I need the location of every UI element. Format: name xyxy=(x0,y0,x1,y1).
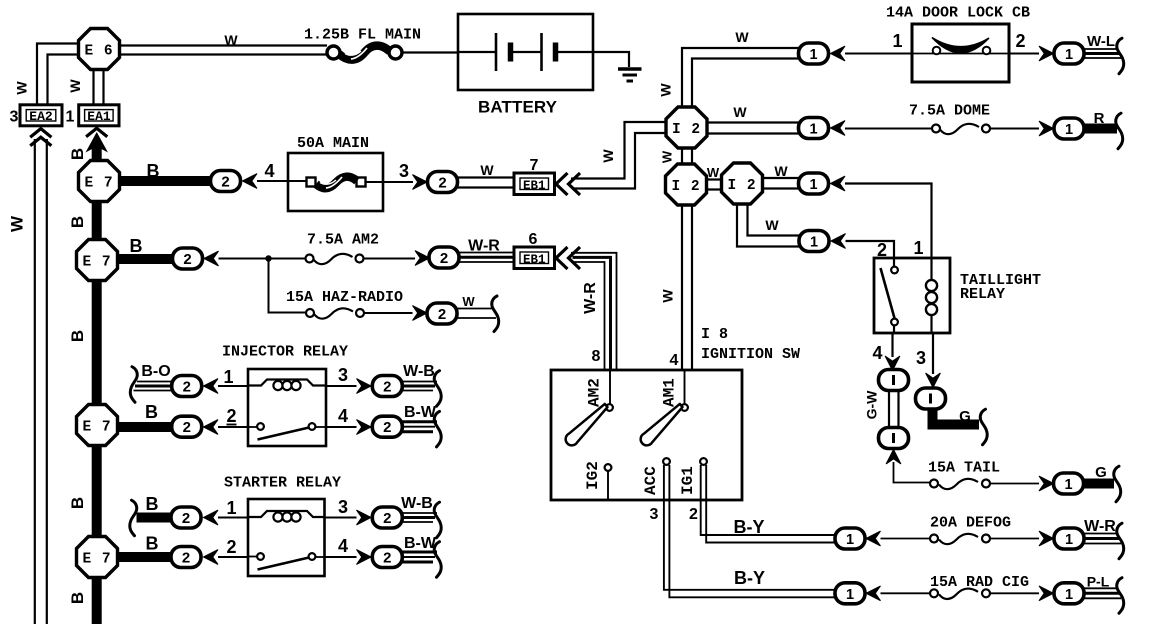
svg-text:W: W xyxy=(774,163,788,179)
hook continuation W-R DEFOG xyxy=(1117,523,1124,559)
junction octagon E 6 xyxy=(79,29,120,70)
wire R thick bar xyxy=(1084,124,1117,134)
wire B-Y double from ACC down then right to rad cig oval xyxy=(664,465,837,597)
wire injector pin2 to box xyxy=(218,426,248,428)
svg-text:ACC: ACC xyxy=(642,466,660,495)
connector oval 2 starter pin2 xyxy=(171,547,201,568)
ground symbol at battery xyxy=(618,69,642,81)
arrow into right oval dome row xyxy=(1039,121,1054,136)
wire dome oval to fuse xyxy=(845,128,932,130)
svg-text:I 2: I 2 xyxy=(672,122,701,138)
svg-text:2: 2 xyxy=(383,551,392,568)
svg-text:2: 2 xyxy=(226,537,236,557)
arrow into door lock oval xyxy=(831,46,846,61)
svg-text:4: 4 xyxy=(670,352,679,369)
arrow into starter pin1 oval xyxy=(204,510,219,525)
svg-text:W: W xyxy=(462,294,475,309)
svg-text:4: 4 xyxy=(338,536,348,556)
wire W double from I2 C right to taillight row oval xyxy=(762,178,799,189)
svg-text:B: B xyxy=(147,161,160,181)
fuse 20A DEFOG xyxy=(930,534,990,544)
svg-text:W: W xyxy=(735,29,749,45)
svg-text:1: 1 xyxy=(223,367,233,387)
svg-text:2: 2 xyxy=(383,380,392,397)
wire battery to ground xyxy=(593,52,629,67)
svg-text:IG1: IG1 xyxy=(679,466,697,495)
svg-text:B-Y: B-Y xyxy=(734,568,765,588)
arrow double chevron up into EA2 xyxy=(30,129,51,146)
wire starter pin1 to oval xyxy=(218,517,248,519)
svg-text:AM2: AM2 xyxy=(586,378,604,407)
battery box xyxy=(458,14,593,90)
svg-text:1: 1 xyxy=(892,31,902,51)
wire starter pin3 to oval xyxy=(325,517,357,519)
svg-text:W-R: W-R xyxy=(1084,518,1116,535)
arrow double chevron at EB1 no7 xyxy=(556,173,580,195)
arrow double chevron at EB1 no6 xyxy=(556,247,580,269)
junction octagon I 2 B xyxy=(666,164,707,205)
svg-text:2: 2 xyxy=(438,176,447,193)
connector oval 1 door lock row xyxy=(799,43,829,64)
svg-text:B: B xyxy=(68,216,87,228)
wire W double from I2 B bottom down to ignition AM1 xyxy=(682,204,692,370)
connector oval 2 starter pin1 xyxy=(171,507,201,528)
svg-text:2: 2 xyxy=(226,406,236,426)
svg-text:B-W: B-W xyxy=(404,404,437,421)
hook continuation R xyxy=(1116,113,1123,149)
connector oval 2 injector pin3 xyxy=(372,376,402,397)
junction octagon I 2 A xyxy=(666,107,707,148)
wire RAD CIG fuse to right oval xyxy=(990,592,1039,594)
circuit breaker box 14A DOOR LOCK CB xyxy=(912,24,1009,82)
battery cells xyxy=(458,33,593,71)
injector relay box xyxy=(248,369,326,446)
svg-text:E 7: E 7 xyxy=(82,552,111,568)
hook continuation B-W injector xyxy=(434,411,441,447)
svg-text:1: 1 xyxy=(846,532,854,548)
wire B-W injector xyxy=(402,422,437,432)
wire CB to right oval xyxy=(1009,53,1039,55)
svg-text:B-W: B-W xyxy=(404,535,437,552)
svg-text:2: 2 xyxy=(183,252,192,269)
arrow into oval AM2 row xyxy=(204,251,219,266)
wire branch down to 15A HAZ-RADIO xyxy=(269,259,307,313)
terminal AM2 xyxy=(606,370,613,411)
svg-text:2: 2 xyxy=(181,551,190,568)
svg-text:EB1: EB1 xyxy=(523,253,546,267)
svg-text:I 2: I 2 xyxy=(671,179,700,195)
wire injector pin1 to oval xyxy=(218,385,248,387)
svg-text:7.5A AM2: 7.5A AM2 xyxy=(307,232,379,249)
ground octagon E 7 no4 xyxy=(77,537,118,578)
svg-text:R: R xyxy=(1094,110,1105,127)
arrow into defog left oval xyxy=(866,531,881,546)
connector oval 1 rad cig left xyxy=(835,583,865,604)
arrow into injector pin3 oval xyxy=(357,379,372,394)
svg-text:1: 1 xyxy=(226,498,236,518)
svg-text:B: B xyxy=(130,236,143,256)
svg-text:2: 2 xyxy=(437,307,446,324)
connector oval 1 pin3 xyxy=(916,388,946,409)
svg-text:4: 4 xyxy=(872,343,882,363)
connector oval 2 injector pin4 xyxy=(372,416,402,437)
ground octagon E 7 no3 xyxy=(77,405,118,446)
wire 50A MAIN to right connector xyxy=(365,181,413,183)
connector oval 1 defog left xyxy=(835,528,865,549)
wire W-B starter xyxy=(402,513,437,522)
starter relay coil xyxy=(248,511,325,522)
wire from FL MAIN to battery xyxy=(402,51,458,53)
wire W double-line from E6 left, down to EA2 xyxy=(37,44,79,107)
svg-text:1: 1 xyxy=(1065,122,1073,138)
arrow into row4 oval xyxy=(831,234,846,249)
wire to 20A DEFOG fuse xyxy=(881,538,933,540)
svg-text:1: 1 xyxy=(809,122,817,138)
svg-text:W: W xyxy=(765,217,779,233)
taillight relay box xyxy=(874,258,950,333)
arrow into injector pin2 oval xyxy=(204,420,219,435)
svg-text:2: 2 xyxy=(439,251,448,268)
starter relay switch xyxy=(248,553,325,569)
arrow into oval right AM2 row xyxy=(415,251,430,266)
svg-text:EA2: EA2 xyxy=(29,109,53,124)
svg-text:W-B: W-B xyxy=(403,363,435,380)
wire W double between I2 B and I2 C xyxy=(705,180,723,190)
svg-text:2: 2 xyxy=(689,506,698,523)
wire B thick E7 no4 to oval xyxy=(117,552,171,562)
svg-text:4: 4 xyxy=(338,406,348,426)
svg-text:7.5A DOME: 7.5A DOME xyxy=(909,103,990,120)
hook continuation P-L xyxy=(1117,578,1124,614)
connector oval 2 left of 50A MAIN xyxy=(211,171,241,192)
svg-text:B: B xyxy=(146,494,159,514)
svg-text:B-Y: B-Y xyxy=(734,517,765,537)
svg-text:I 8: I 8 xyxy=(701,326,728,343)
svg-text:INJECTOR RELAY: INJECTOR RELAY xyxy=(222,344,348,361)
wire from arrow to 7.5A AM2 fuse with junction xyxy=(219,258,307,260)
svg-text:W: W xyxy=(8,215,27,232)
svg-text:3: 3 xyxy=(338,365,348,385)
svg-text:W-L: W-L xyxy=(1087,33,1115,50)
svg-text:3: 3 xyxy=(650,506,659,523)
wire to door lock CB xyxy=(845,53,912,55)
svg-text:15A RAD CIG: 15A RAD CIG xyxy=(930,574,1029,591)
arrow into injector pin1 oval xyxy=(204,379,219,394)
svg-text:W: W xyxy=(733,104,747,120)
svg-text:2: 2 xyxy=(182,380,191,397)
wire B thick from E7 no1 to connector xyxy=(119,176,211,186)
connector EB1 box no6 xyxy=(514,247,555,269)
connector oval 2 starter pin3 xyxy=(372,507,402,528)
wire W double to EB1 no7 xyxy=(458,178,515,188)
svg-text:W: W xyxy=(658,83,674,97)
fuse 15A TAIL xyxy=(930,479,990,489)
arrow into starter pin3 oval xyxy=(357,510,372,525)
wire down then right to 15A TAIL fuse xyxy=(894,462,932,483)
svg-text:2: 2 xyxy=(1015,31,1025,51)
hook continuation B starter xyxy=(130,500,137,536)
svg-text:W: W xyxy=(660,150,675,163)
svg-text:IGNITION SW: IGNITION SW xyxy=(701,346,800,363)
junction octagon I 2 C xyxy=(722,163,763,204)
wire row4 right then down to relay pin2 xyxy=(846,241,895,258)
wire W double-line from E6 bottom down to EA1 xyxy=(94,69,104,106)
svg-text:1: 1 xyxy=(66,109,75,126)
terminal IG2 xyxy=(605,464,612,500)
svg-text:14A DOOR LOCK CB: 14A DOOR LOCK CB xyxy=(886,5,1030,22)
connector EA2 box xyxy=(20,105,62,126)
connector EB1 box no7 xyxy=(514,173,555,195)
terminal IG1 xyxy=(700,458,707,465)
connector oval 1 dome row xyxy=(799,118,829,139)
svg-text:B: B xyxy=(68,497,87,509)
wire W double from I2 top up to door lock row xyxy=(682,48,799,107)
svg-text:G-W: G-W xyxy=(864,390,880,420)
wire W double-line left edge, EA2 down to page bottom xyxy=(35,139,47,624)
svg-text:1: 1 xyxy=(1065,587,1073,603)
wire dome fuse to right oval xyxy=(990,128,1039,130)
svg-text:W: W xyxy=(480,162,494,178)
wire starter pin4 to oval xyxy=(325,556,357,558)
starter relay box xyxy=(248,499,325,576)
svg-text:W-R: W-R xyxy=(468,238,500,255)
svg-text:E 6: E 6 xyxy=(84,44,113,60)
svg-text:15A TAIL: 15A TAIL xyxy=(928,460,1000,477)
svg-text:STARTER RELAY: STARTER RELAY xyxy=(224,475,341,492)
svg-text:1: 1 xyxy=(809,47,817,63)
wire injector pin3 to oval xyxy=(326,385,357,387)
connector oval 1 G-W bottom xyxy=(879,428,909,449)
arrow into right oval door lock row xyxy=(1039,46,1054,61)
wiper lever AM1 xyxy=(641,404,683,445)
svg-text:7: 7 xyxy=(530,157,539,174)
svg-text:B: B xyxy=(68,330,87,342)
wire B-W starter xyxy=(402,552,437,562)
arrow chevron and solid arrow up into EA1 xyxy=(86,128,109,152)
svg-text:8: 8 xyxy=(592,348,601,365)
arrow into taillight coil oval xyxy=(831,176,846,191)
svg-text:4: 4 xyxy=(264,161,274,181)
connector EA1 box xyxy=(79,105,119,126)
svg-text:1: 1 xyxy=(809,177,817,193)
svg-text:W-B: W-B xyxy=(401,495,433,512)
fusible link element inside 50A MAIN xyxy=(307,177,366,189)
wire G-W double vertical xyxy=(889,389,899,428)
wire starter pin2 to box xyxy=(218,556,248,558)
svg-text:1: 1 xyxy=(913,238,923,258)
connector oval 1 right dome row xyxy=(1054,118,1084,139)
connector oval 2 HAZ row xyxy=(427,303,457,324)
wire G thick bar TAIL xyxy=(1084,479,1115,489)
taillight relay switch xyxy=(881,258,898,333)
wire W double from I2 A right to dome row oval xyxy=(707,123,799,134)
connector oval 2 injector pin1 xyxy=(172,376,202,397)
arrow into DEFOG right oval xyxy=(1039,531,1054,546)
connector oval 1 DEFOG right xyxy=(1054,528,1084,549)
arrow into TAIL oval xyxy=(1039,476,1054,491)
svg-text:1.25B FL MAIN: 1.25B FL MAIN xyxy=(304,27,421,44)
connector oval 2 on 7.5A AM2 row xyxy=(173,248,203,269)
wire W double from I2 C bottom down then right to row4 oval xyxy=(737,203,799,247)
svg-text:6: 6 xyxy=(529,231,538,248)
wire W-B triple injector xyxy=(402,382,437,391)
hook continuation HAZ row xyxy=(492,296,499,332)
arrow into dome oval xyxy=(831,121,846,136)
svg-text:2: 2 xyxy=(221,175,230,192)
wire B-Y double from IG1 down then right to defog oval xyxy=(701,465,837,543)
connector oval 1 RAD CIG right xyxy=(1054,583,1084,604)
svg-text:EA1: EA1 xyxy=(87,109,111,124)
injector relay switch xyxy=(248,423,326,439)
svg-text:2: 2 xyxy=(181,511,190,528)
svg-text:W: W xyxy=(67,79,83,93)
wire W-R triple from EB1 no6 right then down to ignition AM2 xyxy=(571,253,617,370)
svg-text:20A DEFOG: 20A DEFOG xyxy=(930,515,1011,532)
hook continuation G TAIL xyxy=(1114,466,1121,502)
svg-text:B: B xyxy=(145,402,158,422)
svg-text:W-R: W-R xyxy=(582,282,599,314)
fuse 15A RAD CIG xyxy=(930,589,990,599)
svg-text:2: 2 xyxy=(383,511,392,528)
wire W double short to hook xyxy=(457,309,496,319)
wire HAZ fuse to connector xyxy=(364,312,413,314)
wire W double between I2 A and I2 B xyxy=(682,146,692,165)
svg-text:3: 3 xyxy=(916,348,926,368)
fuse 15A HAZ-RADIO xyxy=(306,308,364,318)
connector oval 2 injector pin2 xyxy=(172,416,202,437)
svg-text:IG2: IG2 xyxy=(584,461,602,490)
wire B thick E7 no3 to oval xyxy=(117,422,173,432)
pin 2 label injector xyxy=(226,406,236,426)
connector oval 2 right AM2 row xyxy=(429,247,459,268)
fusible link 1.25B FL MAIN symbol xyxy=(327,46,402,60)
svg-text:B: B xyxy=(146,534,159,554)
arrow into RAD CIG right oval xyxy=(1039,586,1054,601)
arrow up into G-W bottom oval xyxy=(886,450,901,465)
svg-text:B: B xyxy=(68,148,87,160)
connector oval 2 starter pin4 xyxy=(372,547,402,568)
wiper lever AM2 xyxy=(566,404,608,445)
wire W double-line from junction E6 right to fusible link xyxy=(119,46,327,55)
wire TAIL fuse to oval xyxy=(990,483,1039,485)
svg-text:E 7: E 7 xyxy=(82,420,111,436)
terminal ACC xyxy=(663,458,670,465)
connector oval 1 right door lock row xyxy=(1054,43,1084,64)
wire G thick from pin3 oval down then right xyxy=(933,408,980,425)
connector oval 2 right of 50A MAIN xyxy=(428,172,458,193)
terminal AM1 xyxy=(681,370,688,411)
svg-text:3: 3 xyxy=(338,497,348,517)
fuse 7.5A AM2 xyxy=(306,254,364,264)
wire injector pin4 to oval xyxy=(326,426,357,428)
svg-text:W: W xyxy=(660,289,676,303)
wire to 50A MAIN fuse xyxy=(257,180,307,182)
arrow into injector pin4 oval xyxy=(357,420,372,435)
arrow into starter pin4 oval xyxy=(357,550,372,565)
label TAILLIGHT RELAY xyxy=(960,272,1041,303)
svg-text:AM1: AM1 xyxy=(661,378,679,407)
svg-text:2: 2 xyxy=(182,420,191,437)
connector oval 1 taillight coil row xyxy=(799,173,829,194)
svg-text:E 7: E 7 xyxy=(82,255,111,271)
hook continuation G at relay xyxy=(980,409,987,445)
wire B thick with hook starter pin1 xyxy=(137,513,172,523)
svg-text:G: G xyxy=(1095,464,1107,481)
wire W-R triple to EB1 no6 xyxy=(459,253,514,263)
arrow into oval right 50A row xyxy=(413,175,428,190)
svg-text:B-O: B-O xyxy=(141,363,170,380)
svg-text:RELAY: RELAY xyxy=(960,286,1005,303)
svg-text:W: W xyxy=(14,81,30,95)
taillight relay coil xyxy=(926,258,937,333)
svg-text:50A MAIN: 50A MAIN xyxy=(297,135,369,152)
svg-text:W: W xyxy=(224,32,238,48)
ignition switch box I 8 xyxy=(551,370,742,500)
wire W double from EB1 no7 right and up to junction I2 top xyxy=(571,122,666,189)
wire B thick from E7 no2 to connector xyxy=(117,254,174,264)
svg-text:2: 2 xyxy=(383,420,392,437)
svg-text:1: 1 xyxy=(1065,47,1073,63)
wire taillight coil feed right then down to relay pin1 xyxy=(845,184,932,259)
ground octagon E 7 no1 xyxy=(79,161,120,202)
svg-text:15A HAZ-RADIO: 15A HAZ-RADIO xyxy=(286,289,403,306)
svg-text:W: W xyxy=(600,149,616,163)
hook continuation B-O xyxy=(130,367,137,403)
ground octagon E 7 no2 xyxy=(77,240,118,281)
wire W-R triple DEFOG xyxy=(1084,534,1121,544)
fuse box 50A MAIN xyxy=(288,153,383,211)
svg-text:BATTERY: BATTERY xyxy=(478,98,558,117)
svg-text:1: 1 xyxy=(846,587,854,603)
arrow into rad cig left oval xyxy=(866,586,881,601)
wire AM2 fuse to connector xyxy=(364,258,416,260)
circuit breaker element xyxy=(912,38,1009,55)
svg-text:E 7: E 7 xyxy=(84,176,113,192)
svg-text:G: G xyxy=(959,408,971,425)
connector oval 1 TAIL row xyxy=(1054,473,1084,494)
wire W-L triple to hook xyxy=(1084,49,1121,58)
wire pin4 down with arrow xyxy=(885,333,900,371)
wire DEFOG fuse to right oval xyxy=(990,538,1039,540)
arrow into oval left 50A row xyxy=(243,174,258,189)
wire to 15A RAD CIG fuse xyxy=(881,592,933,594)
svg-text:1: 1 xyxy=(1064,477,1072,493)
hook continuation W-B starter xyxy=(434,502,441,538)
svg-text:W: W xyxy=(707,165,720,180)
connector oval 1 G-W top xyxy=(879,370,909,391)
injector relay coil xyxy=(248,380,326,391)
svg-text:1: 1 xyxy=(1065,532,1073,548)
wire B thick trunk vertical xyxy=(92,146,102,624)
svg-text:3: 3 xyxy=(399,161,409,181)
connector oval 1 row4 xyxy=(799,231,829,252)
wire B-O triple with hook xyxy=(134,382,173,391)
svg-text:3: 3 xyxy=(10,109,19,126)
hook continuation W-L xyxy=(1117,38,1124,73)
wire pin3 down with arrow xyxy=(926,333,941,388)
svg-text:B: B xyxy=(68,592,87,604)
arrow into starter pin2 oval xyxy=(204,550,219,565)
junction dot HAZ branch xyxy=(265,255,271,261)
svg-text:I 2: I 2 xyxy=(727,178,756,194)
fuse 7.5A DOME xyxy=(932,124,990,134)
hook continuation W-B injector xyxy=(434,371,441,407)
svg-text:1: 1 xyxy=(810,235,818,251)
wire P-L triple RAD CIG xyxy=(1084,588,1121,598)
svg-text:EB1: EB1 xyxy=(523,179,546,193)
hook continuation B-W starter xyxy=(434,542,441,578)
arrow into oval HAZ row xyxy=(413,306,428,321)
